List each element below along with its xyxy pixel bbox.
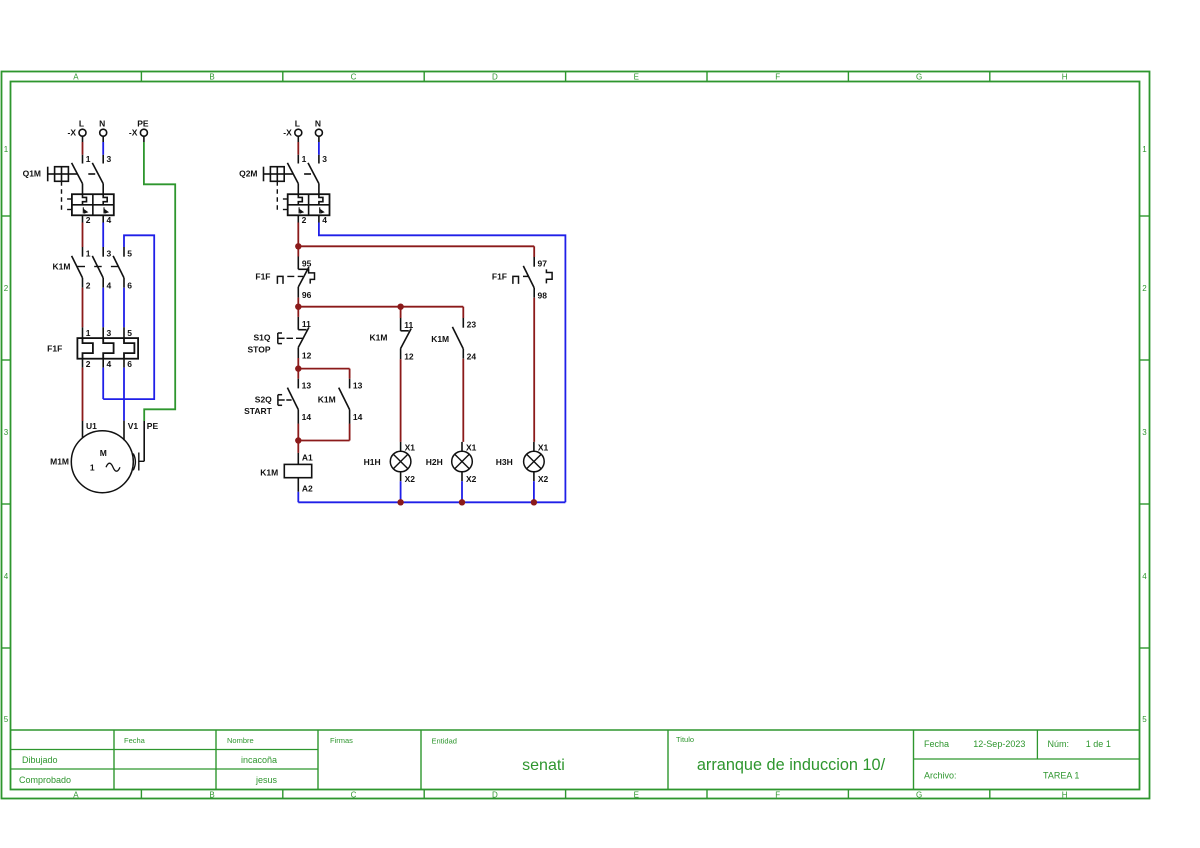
svg-text:H: H xyxy=(1062,791,1068,800)
svg-text:X1: X1 xyxy=(466,442,477,452)
svg-text:C: C xyxy=(351,791,357,800)
svg-text:V1: V1 xyxy=(128,421,139,431)
svg-text:-X: -X xyxy=(129,128,138,138)
svg-text:12: 12 xyxy=(302,351,312,361)
svg-text:Titulo: Titulo xyxy=(676,735,694,744)
svg-text:3: 3 xyxy=(322,154,327,164)
svg-text:14: 14 xyxy=(302,412,312,422)
svg-text:2: 2 xyxy=(1142,284,1147,293)
svg-text:Archivo:: Archivo: xyxy=(924,771,957,781)
svg-text:3: 3 xyxy=(107,154,112,164)
svg-text:L: L xyxy=(295,119,300,129)
svg-text:S2Q: S2Q xyxy=(255,394,272,404)
svg-text:H3H: H3H xyxy=(496,457,513,467)
svg-text:H2H: H2H xyxy=(426,457,443,467)
svg-text:Comprobado: Comprobado xyxy=(19,775,71,785)
svg-text:1: 1 xyxy=(4,145,9,154)
svg-text:F1F: F1F xyxy=(255,271,270,281)
svg-text:4: 4 xyxy=(107,215,112,225)
svg-text:4: 4 xyxy=(107,280,112,290)
svg-text:12: 12 xyxy=(404,352,414,362)
svg-text:5: 5 xyxy=(127,249,132,259)
svg-text:3: 3 xyxy=(1142,428,1147,437)
svg-text:3: 3 xyxy=(4,428,9,437)
svg-text:Dibujado: Dibujado xyxy=(22,755,58,765)
svg-text:Núm:: Núm: xyxy=(1048,739,1070,749)
svg-text:11: 11 xyxy=(404,320,413,330)
svg-text:F1F: F1F xyxy=(47,343,62,353)
svg-text:96: 96 xyxy=(302,290,312,300)
svg-text:PE: PE xyxy=(147,421,159,431)
svg-text:Fecha: Fecha xyxy=(924,739,949,749)
svg-text:L: L xyxy=(79,119,84,129)
svg-text:1: 1 xyxy=(86,154,91,164)
svg-text:3: 3 xyxy=(107,249,112,259)
svg-text:1: 1 xyxy=(86,328,91,338)
svg-text:C: C xyxy=(351,73,357,82)
svg-text:11: 11 xyxy=(302,319,311,329)
svg-text:F1F: F1F xyxy=(492,271,507,281)
svg-text:M1M: M1M xyxy=(50,457,69,467)
svg-text:1: 1 xyxy=(90,463,95,473)
svg-text:A: A xyxy=(73,791,79,800)
svg-text:98: 98 xyxy=(538,290,548,300)
svg-text:2: 2 xyxy=(302,215,307,225)
svg-text:Q1M: Q1M xyxy=(23,169,41,179)
svg-text:2: 2 xyxy=(86,359,91,369)
svg-text:D: D xyxy=(492,791,498,800)
svg-text:H1H: H1H xyxy=(364,457,381,467)
svg-text:K1M: K1M xyxy=(370,333,388,343)
svg-text:4: 4 xyxy=(322,215,327,225)
svg-text:A: A xyxy=(73,73,79,82)
svg-text:X2: X2 xyxy=(538,474,549,484)
svg-text:incacoña: incacoña xyxy=(241,755,277,765)
svg-text:K1M: K1M xyxy=(260,468,278,478)
svg-text:14: 14 xyxy=(353,412,363,422)
svg-text:2: 2 xyxy=(86,280,91,290)
svg-text:Firmas: Firmas xyxy=(330,736,353,745)
svg-text:-X: -X xyxy=(283,128,292,138)
svg-text:2: 2 xyxy=(4,284,9,293)
svg-text:TAREA 1: TAREA 1 xyxy=(1043,771,1079,781)
svg-text:4: 4 xyxy=(1142,572,1147,581)
svg-text:arranque de induccion 10/: arranque de induccion 10/ xyxy=(697,756,886,774)
svg-text:B: B xyxy=(209,791,214,800)
svg-text:23: 23 xyxy=(467,320,477,330)
svg-text:Entidad: Entidad xyxy=(432,737,457,746)
svg-text:S1Q: S1Q xyxy=(253,332,270,342)
svg-text:K1M: K1M xyxy=(318,395,336,405)
svg-text:1: 1 xyxy=(86,249,91,259)
svg-text:97: 97 xyxy=(538,259,548,269)
svg-text:13: 13 xyxy=(302,380,312,390)
svg-text:4: 4 xyxy=(4,572,9,581)
svg-text:K1M: K1M xyxy=(431,334,449,344)
svg-text:6: 6 xyxy=(127,359,132,369)
svg-text:-X: -X xyxy=(68,128,77,138)
svg-text:A2: A2 xyxy=(302,484,313,494)
svg-text:4: 4 xyxy=(107,359,112,369)
svg-text:95: 95 xyxy=(302,259,312,269)
svg-text:5: 5 xyxy=(4,715,9,724)
svg-text:START: START xyxy=(244,406,273,416)
svg-text:N: N xyxy=(315,119,321,129)
svg-text:F: F xyxy=(775,73,780,82)
svg-text:X2: X2 xyxy=(405,474,416,484)
svg-text:jesus: jesus xyxy=(255,775,278,785)
svg-text:2: 2 xyxy=(86,215,91,225)
svg-text:PE: PE xyxy=(137,119,149,129)
svg-text:X2: X2 xyxy=(466,474,477,484)
svg-text:G: G xyxy=(916,73,922,82)
svg-text:M: M xyxy=(100,448,107,458)
svg-text:Q2M: Q2M xyxy=(239,169,257,179)
svg-text:1: 1 xyxy=(1142,145,1147,154)
svg-text:STOP: STOP xyxy=(248,344,271,354)
svg-text:1: 1 xyxy=(302,154,307,164)
svg-text:X1: X1 xyxy=(405,442,416,452)
svg-text:X1: X1 xyxy=(538,442,549,452)
svg-text:A1: A1 xyxy=(302,453,313,463)
svg-text:1 de 1: 1 de 1 xyxy=(1086,739,1111,749)
svg-text:N: N xyxy=(99,119,105,129)
svg-text:senati: senati xyxy=(522,757,565,774)
svg-text:5: 5 xyxy=(1142,715,1147,724)
svg-text:13: 13 xyxy=(353,380,363,390)
svg-text:6: 6 xyxy=(127,280,132,290)
svg-text:K1M: K1M xyxy=(53,262,71,272)
svg-text:F: F xyxy=(775,791,780,800)
svg-text:12-Sep-2023: 12-Sep-2023 xyxy=(973,739,1025,749)
svg-text:5: 5 xyxy=(127,328,132,338)
svg-text:3: 3 xyxy=(107,328,112,338)
svg-text:E: E xyxy=(634,73,639,82)
svg-text:D: D xyxy=(492,73,498,82)
svg-text:Fecha: Fecha xyxy=(124,736,146,745)
svg-text:B: B xyxy=(209,73,214,82)
svg-text:Nombre: Nombre xyxy=(227,736,254,745)
svg-text:E: E xyxy=(634,791,639,800)
svg-text:U1: U1 xyxy=(86,421,97,431)
svg-text:24: 24 xyxy=(467,351,477,361)
svg-text:H: H xyxy=(1062,73,1068,82)
svg-text:G: G xyxy=(916,791,922,800)
